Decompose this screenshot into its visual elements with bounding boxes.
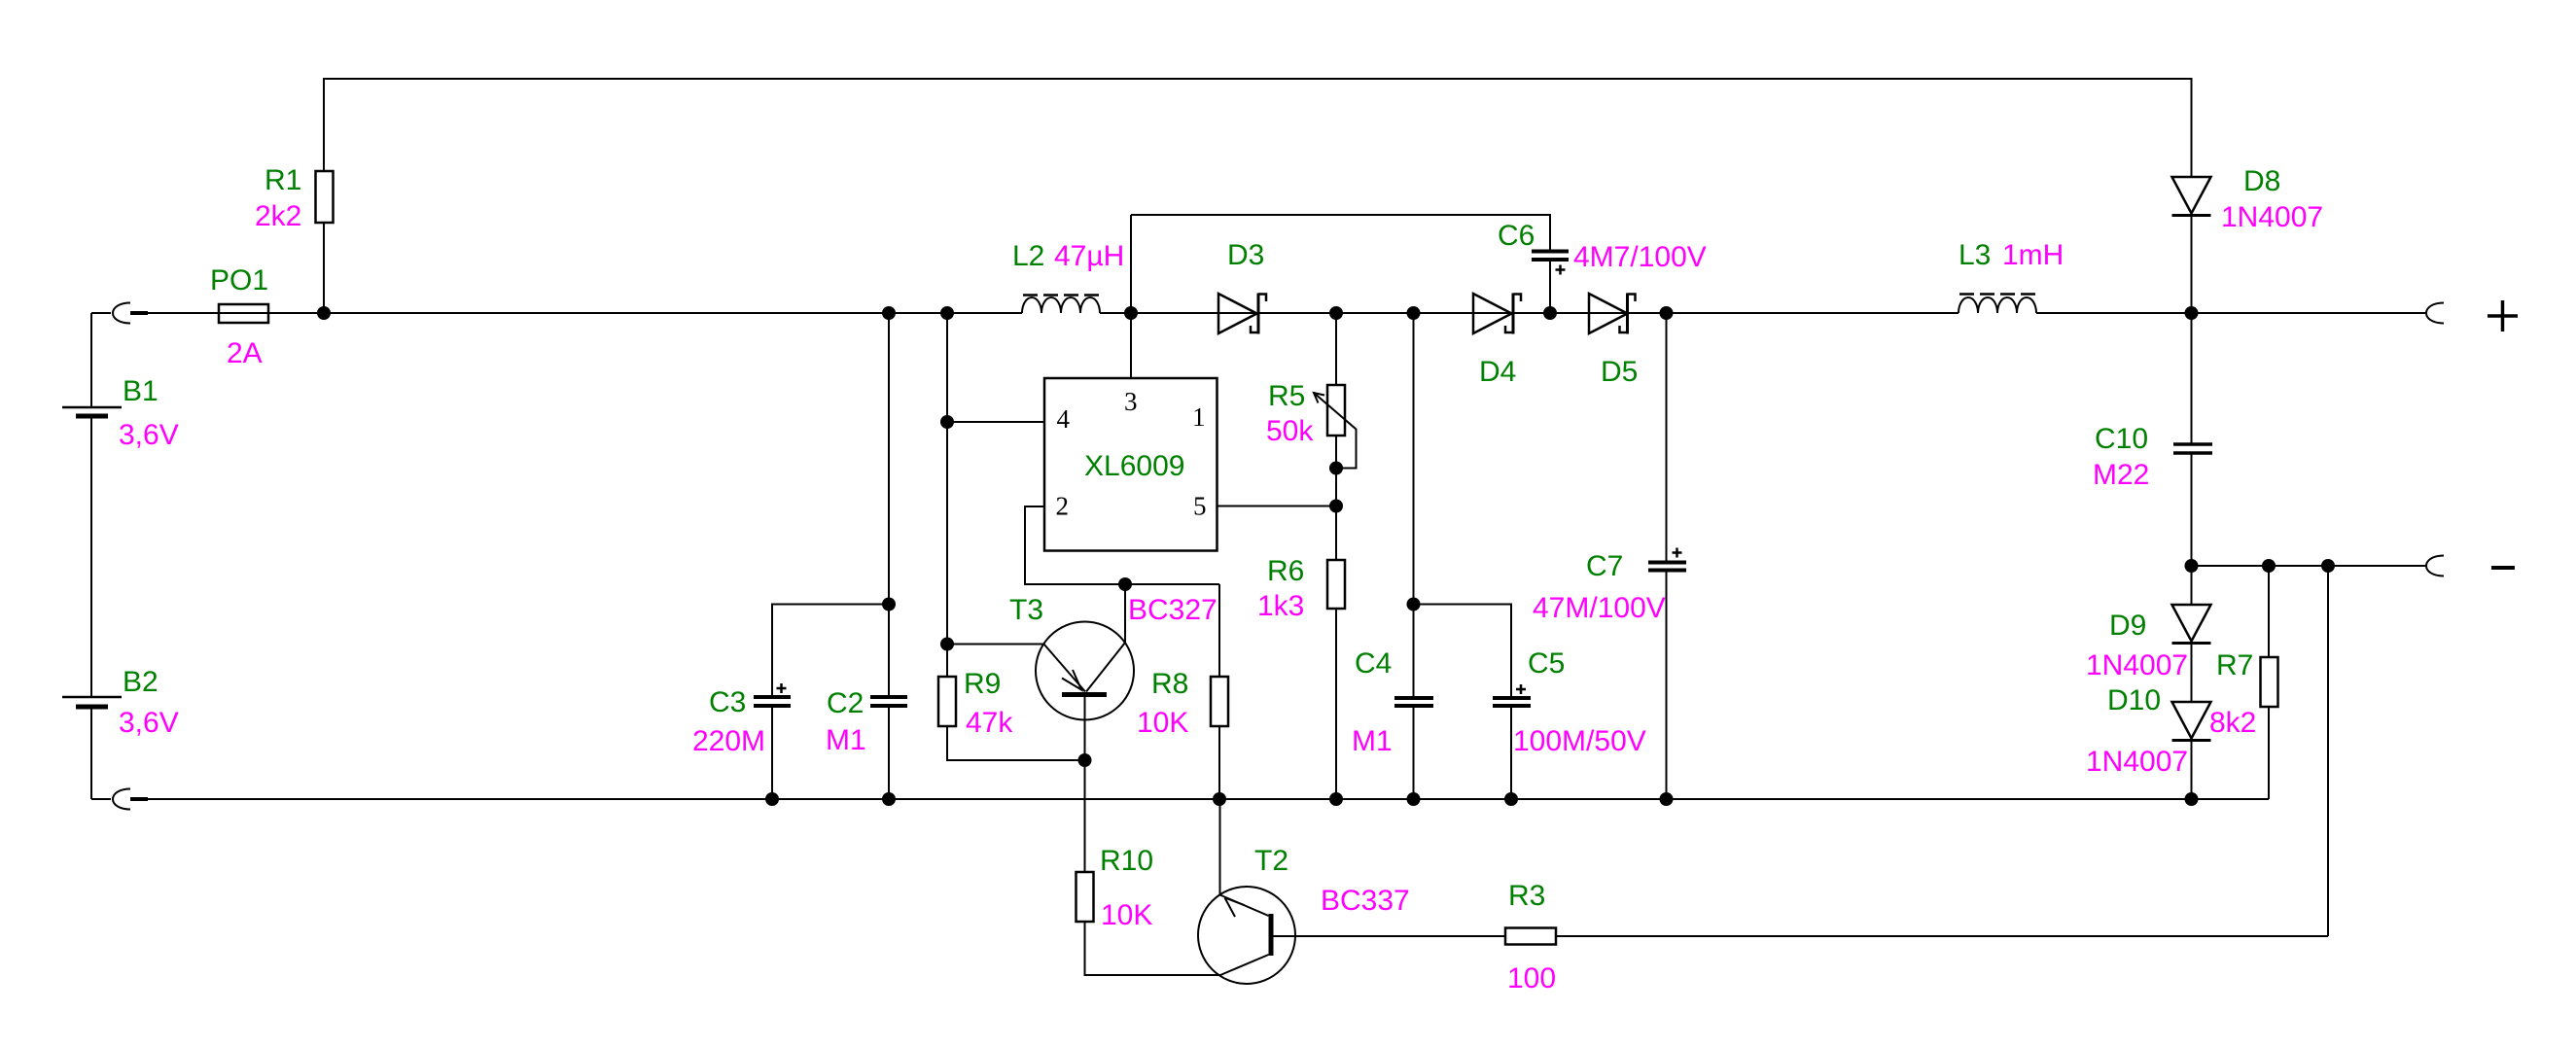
wire top to C6 [1131,215,1550,250]
resistor R10 [1076,760,1221,975]
svg-text:C7: C7 [1586,550,1623,582]
transistor T3 BC327 [947,584,1217,760]
svg-text:1k3: 1k3 [1257,590,1304,622]
capacitor C5 [1414,605,1646,800]
svg-text:R6: R6 [1267,555,1304,587]
capacitor C3 [692,605,889,800]
svg-text:D4: D4 [1479,356,1516,388]
svg-text:M22: M22 [2093,459,2149,491]
capacitor C6 [1498,220,1707,313]
resistor R8 [1137,584,1228,799]
svg-text:C2: C2 [827,687,864,719]
svg-text:3,6V: 3,6V [119,707,179,739]
svg-text:100M/50V: 100M/50V [1513,725,1646,757]
wire pin2 path [1025,506,1219,584]
svg-text:5: 5 [1193,492,1207,521]
resistor R1 [255,164,334,313]
diode D3 [1218,239,1266,334]
svg-text:L2: L2 [1012,240,1044,272]
svg-text:1: 1 [1192,402,1206,432]
wire pin3 vertical [1130,215,1132,378]
connector output minus [2426,556,2515,576]
svg-text:R1: R1 [265,164,301,196]
svg-text:D8: D8 [2243,165,2280,197]
svg-text:PO1: PO1 [210,264,268,297]
svg-text:10K: 10K [1137,707,1188,739]
battery B1 [62,375,179,451]
capacitor C2 [826,313,907,799]
svg-text:8k2: 8k2 [2209,707,2256,739]
svg-text:47k: 47k [966,707,1013,739]
svg-text:3: 3 [1124,387,1138,416]
svg-text:D10: D10 [2107,684,2161,716]
diode D10 [2086,684,2211,799]
svg-text:2A: 2A [227,337,263,369]
wire top feedback from R1 to D8 [324,79,2192,177]
connector input top [91,303,148,324]
diode D5 [1589,294,1638,389]
capacitor C7 [1533,313,1686,799]
svg-text:C5: C5 [1528,647,1565,680]
resistor R9 [938,668,1085,760]
svg-text:R3: R3 [1508,880,1545,912]
svg-text:D3: D3 [1227,239,1264,271]
wire main rail left [148,312,1022,314]
svg-text:1mH: 1mH [2002,239,2064,271]
wire bottom rail [148,798,2269,800]
IC U1 XL6009 [1044,378,1217,551]
svg-text:XL6009: XL6009 [1084,450,1184,482]
connector input bottom [91,789,148,810]
transistor T2 BC337 [1198,800,1505,984]
wire pin4 [947,421,1044,423]
resistor R7 [2209,566,2278,799]
svg-text:10K: 10K [1101,899,1152,931]
svg-text:R5: R5 [1268,380,1305,412]
resistor R6 [1257,555,1345,799]
svg-text:R8: R8 [1151,668,1188,700]
svg-text:B2: B2 [123,666,159,698]
svg-text:L3: L3 [1958,239,1991,271]
svg-text:47M/100V: 47M/100V [1533,592,1666,624]
svg-text:BC337: BC337 [1321,885,1410,917]
svg-text:3,6V: 3,6V [119,419,179,451]
svg-text:C4: C4 [1355,647,1392,680]
wire main rail middle [1100,312,1958,314]
wire minus node [2192,565,2426,567]
svg-text:D5: D5 [1601,356,1638,388]
wire main rail right [2036,312,2425,314]
svg-text:T3: T3 [1009,594,1043,626]
fuse PO1 [210,264,268,369]
inductor L3 [1958,239,2064,313]
svg-text:R7: R7 [2216,649,2253,681]
svg-text:D9: D9 [2109,610,2146,642]
svg-text:100: 100 [1507,962,1556,995]
svg-text:2k2: 2k2 [255,200,301,232]
svg-text:R9: R9 [964,668,1001,700]
wire pin5 [1217,506,1337,507]
battery B2 [62,666,179,739]
diode D8 [2172,165,2324,313]
connector output plus [2426,300,2518,332]
capacitor C4 [1352,313,1433,799]
svg-text:4M7/100V: 4M7/100V [1573,241,1707,273]
diode D4 [1473,294,1521,389]
capacitor C10 [2093,313,2212,566]
svg-text:1N4007: 1N4007 [2086,649,2188,681]
resistor R3 [1505,880,2328,995]
inductor L2 [1012,240,1124,313]
svg-text:R10: R10 [1100,845,1153,877]
svg-text:1N4007: 1N4007 [2221,201,2323,233]
svg-text:BC327: BC327 [1128,594,1217,626]
svg-text:C6: C6 [1498,220,1535,252]
svg-text:4: 4 [1057,404,1071,434]
svg-text:50k: 50k [1266,415,1314,447]
svg-text:M1: M1 [826,724,866,756]
svg-text:B1: B1 [123,375,159,407]
diode D9 [2086,566,2211,702]
svg-text:1N4007: 1N4007 [2086,746,2188,778]
svg-text:47µH: 47µH [1054,240,1124,272]
wire left column upper [90,313,92,407]
potentiometer R5 [1266,313,1357,560]
svg-text:2: 2 [1056,492,1070,521]
wire left column lower [90,707,92,799]
svg-text:C10: C10 [2095,423,2148,455]
svg-text:C3: C3 [709,686,746,718]
svg-text:T2: T2 [1254,845,1288,877]
svg-text:M1: M1 [1352,725,1393,757]
wire R9 column [946,313,948,677]
wire R3 feedback up [2327,566,2329,936]
wire left column middle [90,416,92,697]
svg-text:220M: 220M [692,725,765,757]
